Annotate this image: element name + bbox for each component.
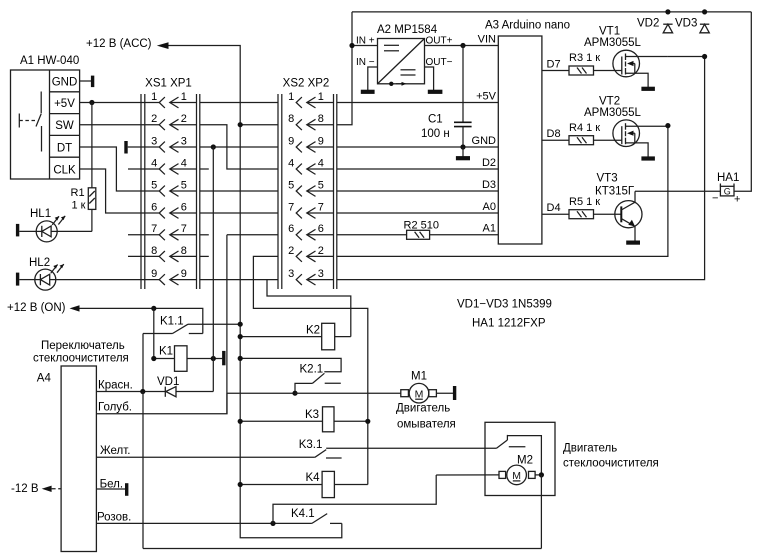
svg-text:SW: SW — [55, 120, 74, 132]
svg-text:4: 4 — [151, 157, 157, 169]
svg-text:9: 9 — [318, 135, 324, 147]
svg-text:8: 8 — [288, 113, 294, 125]
svg-text:APM3055L: APM3055L — [584, 37, 642, 49]
svg-text:Переключатель: Переключатель — [41, 340, 125, 352]
svg-text:VD1−VD3 1N5399: VD1−VD3 1N5399 — [457, 299, 552, 311]
svg-text:C1: C1 — [428, 114, 443, 126]
svg-text:K2.1: K2.1 — [300, 363, 324, 375]
svg-text:D8: D8 — [547, 128, 561, 140]
svg-text:VD3: VD3 — [675, 18, 697, 30]
svg-text:4: 4 — [318, 157, 324, 169]
svg-text:5: 5 — [288, 179, 294, 191]
svg-text:R4 1 к: R4 1 к — [569, 122, 600, 134]
svg-text:R3 1 к: R3 1 к — [569, 52, 600, 64]
svg-text:5: 5 — [181, 179, 187, 191]
svg-text:K3: K3 — [305, 409, 319, 421]
svg-text:VT1: VT1 — [599, 26, 620, 38]
svg-text:5: 5 — [318, 179, 324, 191]
svg-text:3: 3 — [318, 268, 324, 280]
svg-text:K4.1: K4.1 — [291, 508, 315, 520]
svg-text:3: 3 — [288, 268, 294, 280]
svg-text:G: G — [724, 187, 731, 197]
svg-text:IN −: IN − — [356, 57, 375, 68]
svg-text:9: 9 — [288, 135, 294, 147]
svg-text:XS2 XP2: XS2 XP2 — [283, 78, 330, 90]
svg-text:7: 7 — [151, 223, 157, 235]
svg-text:7: 7 — [181, 223, 187, 235]
svg-text:XS1 XP1: XS1 XP1 — [145, 78, 192, 90]
svg-text:VT2: VT2 — [599, 96, 620, 108]
svg-text:K3.1: K3.1 — [299, 439, 323, 451]
svg-text:D2: D2 — [482, 157, 496, 169]
svg-text:6: 6 — [288, 223, 294, 235]
svg-text:K1.1: K1.1 — [160, 316, 184, 328]
svg-text:1: 1 — [288, 91, 294, 103]
svg-text:8: 8 — [151, 245, 157, 257]
svg-text:-12 В: -12 В — [11, 483, 39, 495]
svg-text:GND: GND — [52, 77, 78, 89]
svg-text:Красн.: Красн. — [98, 379, 133, 391]
svg-text:D4: D4 — [547, 202, 561, 214]
svg-text:R1: R1 — [71, 187, 85, 199]
svg-text:HA1: HA1 — [717, 172, 739, 184]
svg-text:HA1 1212FXP: HA1 1212FXP — [472, 318, 546, 330]
svg-text:100 н: 100 н — [421, 128, 450, 140]
svg-text:A1 HW-040: A1 HW-040 — [20, 55, 79, 67]
svg-text:GND: GND — [472, 135, 497, 147]
svg-text:VD2: VD2 — [637, 18, 659, 30]
svg-text:OUT−: OUT− — [426, 57, 453, 68]
svg-text:VT3: VT3 — [597, 173, 618, 185]
svg-text:OUT+: OUT+ — [426, 36, 453, 47]
svg-text:A0: A0 — [483, 201, 496, 213]
svg-text:КТ315Г: КТ315Г — [595, 186, 635, 198]
svg-text:M1: M1 — [411, 371, 427, 383]
svg-text:5: 5 — [151, 179, 157, 191]
svg-text:3: 3 — [151, 135, 157, 147]
svg-text:K2: K2 — [306, 325, 320, 337]
svg-text:2: 2 — [288, 245, 294, 257]
svg-text:+5V: +5V — [476, 90, 497, 102]
svg-text:+5V: +5V — [54, 98, 75, 110]
svg-text:K1: K1 — [159, 346, 173, 358]
svg-text:M2: M2 — [517, 455, 533, 467]
svg-text:+: + — [734, 194, 740, 206]
svg-text:D3: D3 — [482, 179, 496, 191]
svg-text:D7: D7 — [547, 58, 561, 70]
svg-text:1: 1 — [151, 91, 157, 103]
svg-text:6: 6 — [151, 201, 157, 213]
svg-text:CLK: CLK — [53, 165, 76, 177]
svg-text:Желт.: Желт. — [100, 445, 130, 457]
svg-text:Розов.: Розов. — [97, 511, 131, 523]
svg-text:3: 3 — [181, 135, 187, 147]
svg-text:6: 6 — [318, 223, 324, 235]
svg-text:4: 4 — [181, 157, 187, 169]
svg-text:омывателя: омывателя — [397, 419, 456, 431]
svg-text:HL2: HL2 — [29, 257, 50, 269]
svg-text:8: 8 — [181, 245, 187, 257]
svg-text:Двигатель: Двигатель — [396, 403, 450, 415]
svg-text:2: 2 — [318, 245, 324, 257]
svg-text:IN +: IN + — [356, 36, 375, 47]
svg-text:Двигатель: Двигатель — [563, 443, 617, 455]
svg-text:8: 8 — [318, 113, 324, 125]
svg-text:+12 В (ON): +12 В (ON) — [7, 302, 66, 314]
svg-text:1: 1 — [181, 91, 187, 103]
svg-text:A4: A4 — [37, 373, 52, 385]
svg-text:K4: K4 — [306, 472, 321, 484]
svg-text:A2 MP1584: A2 MP1584 — [377, 24, 438, 36]
svg-text:R2 510: R2 510 — [404, 219, 439, 231]
svg-text:стеклоочистителя: стеклоочистителя — [33, 352, 129, 364]
svg-text:A1: A1 — [483, 223, 496, 235]
svg-text:9: 9 — [151, 268, 157, 280]
svg-text:1: 1 — [318, 91, 324, 103]
svg-text:R5 1 к: R5 1 к — [569, 196, 600, 208]
svg-text:Голуб.: Голуб. — [98, 402, 132, 414]
svg-text:VIN: VIN — [478, 33, 496, 45]
svg-text:6: 6 — [181, 201, 187, 213]
svg-text:A3 Arduino nano: A3 Arduino nano — [485, 20, 570, 32]
svg-text:1 к: 1 к — [72, 200, 86, 212]
svg-text:2: 2 — [181, 113, 187, 125]
svg-text:7: 7 — [318, 201, 324, 213]
svg-text:9: 9 — [181, 268, 187, 280]
svg-text:+12 В (ACC): +12 В (ACC) — [86, 38, 152, 50]
svg-text:DT: DT — [57, 143, 72, 155]
svg-text:4: 4 — [288, 157, 294, 169]
svg-text:HL1: HL1 — [30, 208, 51, 220]
svg-text:APM3055L: APM3055L — [584, 107, 642, 119]
svg-text:−: − — [712, 193, 718, 205]
svg-text:7: 7 — [288, 201, 294, 213]
svg-text:2: 2 — [151, 113, 157, 125]
svg-text:стеклоочистителя: стеклоочистителя — [563, 458, 659, 470]
